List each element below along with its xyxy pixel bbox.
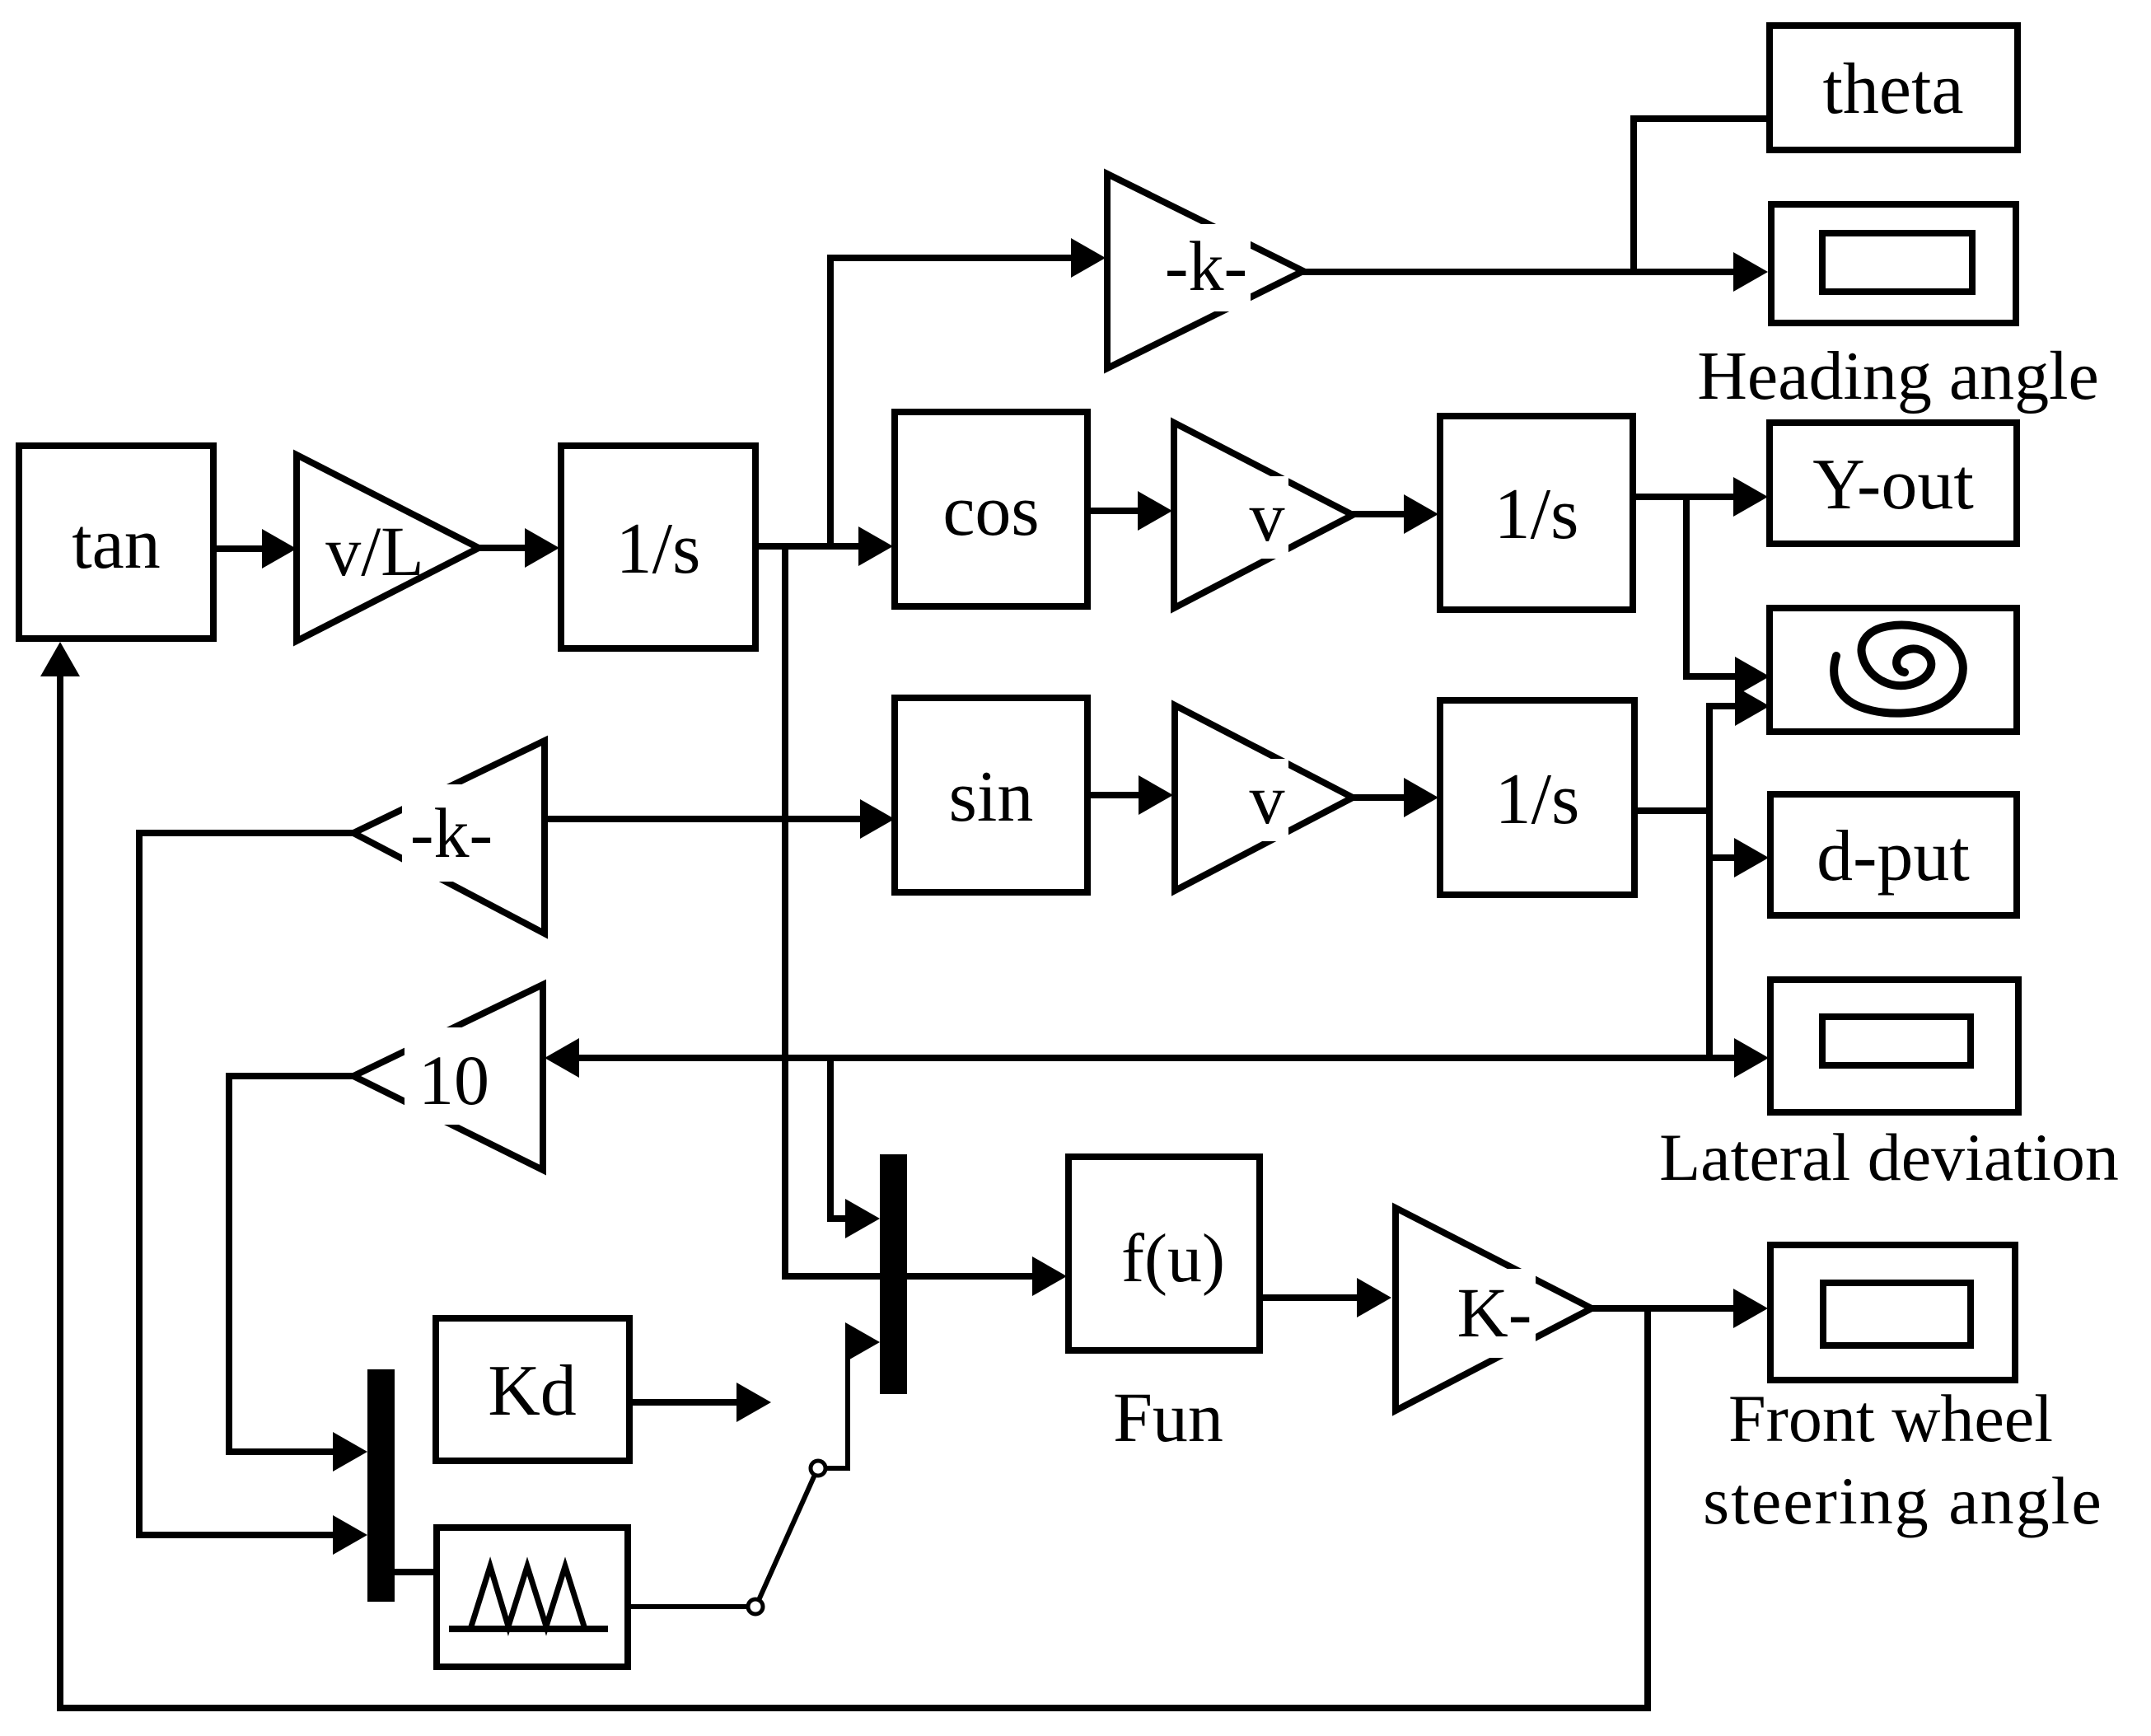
- svg-text:Kd: Kd: [488, 1351, 577, 1431]
- svg-text:-k-: -k-: [1165, 227, 1247, 306]
- svg-text:10: 10: [419, 1041, 489, 1120]
- svg-text:1/s: 1/s: [1495, 760, 1580, 840]
- svg-text:f(u): f(u): [1121, 1220, 1225, 1297]
- svg-text:Fun: Fun: [1113, 1378, 1223, 1457]
- svg-text:v: v: [1250, 760, 1285, 839]
- svg-text:-k-: -k-: [410, 793, 493, 873]
- svg-text:1/s: 1/s: [616, 509, 701, 589]
- svg-text:sin: sin: [949, 757, 1034, 837]
- svg-text:v: v: [1250, 477, 1285, 556]
- svg-text:Lateral deviation: Lateral deviation: [1659, 1120, 2119, 1195]
- svg-text:theta: theta: [1822, 49, 1963, 129]
- svg-text:Heading angle: Heading angle: [1697, 338, 2098, 414]
- svg-text:v/L: v/L: [325, 512, 423, 591]
- svg-text:cos: cos: [942, 471, 1039, 551]
- svg-text:steering angle: steering angle: [1703, 1463, 2103, 1538]
- svg-text:tan: tan: [72, 504, 161, 584]
- svg-text:K-: K-: [1457, 1273, 1532, 1352]
- svg-text:1/s: 1/s: [1494, 475, 1579, 554]
- svg-text:Front wheel: Front wheel: [1728, 1381, 2053, 1456]
- svg-text:d-put: d-put: [1817, 817, 1970, 896]
- svg-text:Y-out: Y-out: [1812, 445, 1974, 525]
